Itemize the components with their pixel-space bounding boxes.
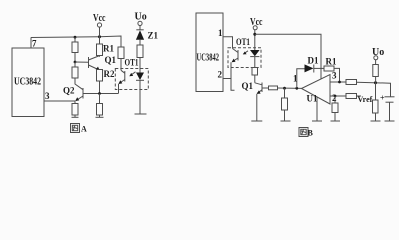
resistor Rc emitter [74,101,76,104]
wire Vcc down to LED [254,30,256,50]
wire LED cathode down [139,80,141,114]
resistor Rm Vref series [346,94,357,99]
svg-text:Vref: Vref [358,95,373,104]
svg-text:A: A [81,125,87,134]
node feedback dot [295,87,298,90]
svg-text:Vcc: Vcc [93,13,106,24]
figure label A [71,124,88,134]
capacitor C1 [385,96,395,98]
svg-text:D1: D1 [308,56,319,66]
wire Rb to Q2 collector [75,78,83,90]
wire pin2 row [330,95,346,97]
light arrow B [244,51,248,54]
node rail-right dot [98,35,101,38]
svg-text:Q1: Q1 [242,81,254,91]
svg-text:R2: R2 [104,69,115,79]
svg-text:OT1: OT1 [125,57,139,67]
wire pin3 row [330,81,349,83]
node base divider dot [74,61,77,64]
resistor Rd sense [99,94,101,104]
wire Q1 emitter to ground [256,94,258,121]
wire feedback up [297,69,305,89]
svg-text:7: 7 [32,39,37,49]
LED OT1-B [250,50,260,56]
ground B5 [385,120,395,122]
node pin2 row dot [334,95,337,98]
node divider dot [283,87,286,90]
svg-text:Z1: Z1 [148,31,159,41]
wire pin3 [44,100,75,102]
svg-text:B: B [308,129,314,138]
op-amp U1 [302,75,331,105]
resistor Rj [346,80,357,85]
ground B6 [331,120,341,122]
ground B1 [251,120,262,122]
resistor R1 [99,37,101,44]
figure label B [299,128,314,138]
wire Ra to node [74,53,76,63]
wire pin1 [223,37,233,49]
resistor R2 [97,70,103,82]
resistor Rn pin2 to ground [334,96,336,103]
wire Q2 base to node [84,93,119,95]
svg-text:2: 2 [218,70,223,80]
svg-text:OT1: OT1 [236,37,250,47]
node R2-bottom dot [98,92,101,95]
svg-text:+: + [380,94,385,103]
resistor Rg [252,68,258,76]
resistor Ri to ground [284,88,286,98]
svg-text:Q2: Q2 [63,86,75,96]
IC U-A UC3842 box [12,48,44,117]
wire LED cathode [254,57,256,68]
svg-text:1: 1 [218,28,223,38]
svg-text:1: 1 [293,74,298,84]
node Vcc rail tap [253,33,256,36]
svg-text:3: 3 [332,71,337,81]
wire Rj to Uo node [357,82,391,97]
wire base node to opamp [278,87,302,89]
wire pin7 vertical [30,37,32,48]
resistor Rh base series [269,86,278,90]
wire Vcc to rail [99,27,101,37]
resistor Ra upper-left [74,37,76,42]
LED OT1-A [136,73,144,81]
wire phototransistor emitter down [118,84,120,94]
svg-text:3: 3 [45,91,50,101]
light arrow A [130,72,135,76]
node Uo divider dot [374,81,377,84]
transistor Q2 [82,88,84,99]
svg-text:R1: R1 [326,57,337,67]
wire Vcc rail B [255,34,321,79]
phototransistor OT1-B output [237,50,239,61]
wire R1 to pin3 node [334,68,340,82]
resistor Rb lower-left [74,62,76,67]
resistor Rf LED series [137,45,143,58]
node R1 join dot [338,81,341,84]
ground A2 [96,116,104,118]
IC U-B UC3842 box [196,13,223,92]
transistor Q1-B [261,83,263,93]
wire D1 to R1 [314,67,324,69]
wire phototransistor emitter routing [231,62,235,90]
wire Q1 base [75,61,89,63]
svg-text:Uo: Uo [135,12,147,23]
diode D1 [305,64,314,72]
zener Z1 [139,26,141,30]
optocoupler OT1-B dashed box [228,48,261,68]
wire pin2 [223,78,231,80]
ground B4 [312,120,322,122]
svg-text:U1: U1 [307,94,318,104]
wire top rail A [31,36,121,47]
ground A3 [135,113,147,115]
wire Q1 base [262,87,269,89]
svg-text:UC3842: UC3842 [14,77,41,88]
svg-text:R1: R1 [103,44,114,54]
wire U1 ground [316,97,318,122]
node rail-left dot [74,36,77,39]
resistor Rl lower divider [375,83,377,100]
svg-text:UC3842: UC3842 [197,53,220,64]
svg-text:Q1: Q1 [105,55,117,65]
resistor Rk upper divider [375,60,377,65]
ground B3 [371,120,381,122]
transistor Q1 [88,57,90,68]
optocoupler OT1-A dashed box [115,69,148,90]
ground A1 [72,116,79,118]
ground B2 [281,120,291,122]
resistor R1-B [324,66,334,71]
resistor Re collector pull-up [118,47,124,59]
phototransistor OT1-A output [124,71,126,82]
